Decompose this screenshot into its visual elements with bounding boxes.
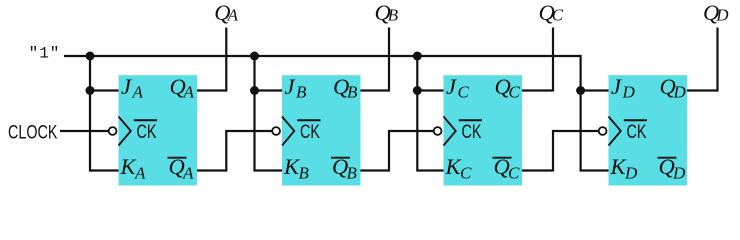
- wire JD input: [581, 89, 609, 91]
- wire QA output to top label: [197, 28, 226, 91]
- wire QbarC to CK of next stage: [522, 131, 599, 171]
- pin label QbarD: [658, 157, 677, 159]
- svg-text:A: A: [132, 83, 144, 102]
- svg-text:C: C: [509, 83, 521, 102]
- svg-text:CK: CK: [300, 121, 321, 143]
- svg-text:B: B: [299, 164, 310, 183]
- svg-text:A: A: [134, 164, 146, 183]
- wire logic-1 rail: [64, 55, 581, 57]
- CK label with overline U4: [624, 119, 647, 121]
- wire JB input: [255, 89, 283, 91]
- svg-text:A: A: [182, 164, 194, 183]
- CK edge-trigger chevron U4: [609, 117, 621, 146]
- CK edge-trigger chevron U3: [444, 117, 456, 146]
- flip-flop U2 box: [282, 75, 361, 185]
- net label CLOCK: [8, 122, 58, 144]
- flip-flop U4 box: [609, 75, 688, 185]
- wire QD output to top label: [687, 28, 718, 91]
- CK inversion bubble U1: [109, 127, 117, 135]
- junction dot on rail at stage A: [86, 52, 95, 61]
- wire CLOCK input: [60, 130, 109, 132]
- wire "1" drop to KB: [255, 56, 283, 171]
- wire "1" rail corner down to K_D: [581, 55, 609, 171]
- wire "1" drop to KC: [417, 56, 443, 171]
- svg-text:J: J: [121, 74, 132, 99]
- CK inversion bubble U2: [272, 127, 280, 135]
- junction dot JC: [413, 86, 422, 95]
- flip-flop U3 box: [444, 75, 523, 185]
- CK label with overline U2: [297, 119, 320, 121]
- svg-text:A: A: [183, 83, 195, 102]
- pin label QbarA: [168, 157, 187, 159]
- svg-text:B: B: [347, 164, 358, 183]
- svg-text:CK: CK: [627, 121, 648, 143]
- svg-text:"1": "1": [29, 45, 61, 63]
- svg-text:C: C: [460, 164, 472, 183]
- svg-text:K: K: [120, 154, 137, 179]
- flip-flop U1 box: [119, 75, 198, 185]
- svg-text:CK: CK: [137, 121, 158, 143]
- wire QC output to top label: [522, 28, 553, 91]
- junction dot JA: [86, 86, 95, 95]
- svg-text:K: K: [445, 154, 462, 179]
- junction dot on rail at stage C: [413, 52, 422, 61]
- svg-text:C: C: [508, 164, 520, 183]
- svg-text:J: J: [285, 74, 296, 99]
- svg-text:J: J: [611, 74, 622, 99]
- svg-text:D: D: [672, 164, 686, 183]
- svg-text:D: D: [624, 164, 638, 183]
- CK inversion bubble U3: [434, 127, 442, 135]
- svg-text:K: K: [283, 154, 300, 179]
- wire QB output to top label: [361, 28, 390, 91]
- junction dot JB: [250, 86, 259, 95]
- pin label QbarC: [493, 157, 512, 159]
- svg-text:C: C: [458, 83, 470, 102]
- svg-text:B: B: [347, 83, 358, 102]
- svg-text:A: A: [227, 6, 239, 25]
- wire JC input: [417, 89, 443, 91]
- wire "1" drop to KA: [90, 56, 119, 171]
- CK edge-trigger chevron U2: [282, 117, 294, 146]
- svg-text:D: D: [673, 83, 687, 102]
- svg-text:CK: CK: [462, 121, 483, 143]
- svg-text:B: B: [296, 83, 307, 102]
- pin label QbarB: [331, 157, 350, 159]
- svg-text:C: C: [552, 6, 564, 25]
- svg-text:D: D: [622, 83, 636, 102]
- junction dot JD: [576, 86, 585, 95]
- svg-text:J: J: [446, 74, 457, 99]
- wire QbarA to CK of next stage: [197, 131, 272, 171]
- CK label with overline U1: [134, 119, 157, 121]
- CK label with overline U3: [459, 119, 482, 121]
- wire QbarB to CK of next stage: [361, 131, 434, 171]
- svg-text:CLOCK: CLOCK: [8, 122, 58, 144]
- wire JA input: [90, 89, 119, 91]
- svg-text:D: D: [715, 6, 729, 25]
- CK edge-trigger chevron U1: [119, 117, 131, 146]
- junction dot on rail at stage B: [250, 52, 259, 61]
- svg-text:B: B: [388, 6, 399, 25]
- CK inversion bubble U4: [599, 127, 607, 135]
- svg-text:K: K: [610, 154, 627, 179]
